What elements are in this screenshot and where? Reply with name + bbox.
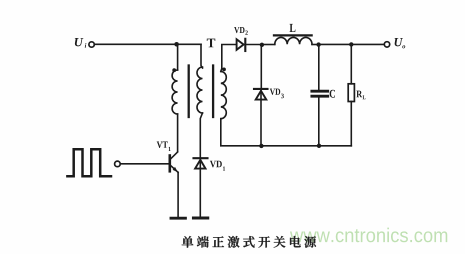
secondary phase dot [222, 68, 226, 72]
junction node input/primary [174, 42, 179, 47]
wire C bottom lead [318, 98, 320, 146]
primary phase dot [172, 68, 176, 72]
transformer reset winding [197, 67, 202, 113]
junction node L/C [316, 42, 320, 46]
transformer core bar right [212, 66, 214, 118]
label VD2 [234, 27, 248, 35]
wire RL top lead [350, 44, 352, 83]
transformer T primary winding [172, 70, 177, 114]
wire primary top lead [177, 44, 179, 70]
wire primary bottom lead [177, 114, 179, 151]
wire VD2 to node [245, 44, 262, 46]
wire secondary bottom rail [221, 119, 351, 146]
label C [330, 90, 335, 98]
pulse source square wave [67, 149, 111, 176]
wire emitter lead [177, 172, 179, 217]
wire node to L [262, 44, 275, 46]
watermark www.cntronics.com [290, 228, 447, 243]
label VT1 [157, 142, 171, 151]
label L [290, 24, 296, 32]
wire secondary top lead [221, 45, 236, 72]
label VD3 [270, 89, 284, 99]
wire L to C node [312, 44, 319, 46]
ground emitter [171, 217, 185, 220]
wire VD1 bottom lead [199, 160, 201, 217]
junction node rail/VD3 [259, 144, 263, 148]
diode VD2 [237, 39, 246, 51]
input terminal Ui [89, 42, 94, 47]
diode VD3 [254, 89, 268, 100]
transformer core bar left [188, 66, 190, 118]
wire C node to RL node [319, 43, 352, 45]
capacitor C [312, 91, 328, 96]
wire VD3 top lead [260, 45, 262, 89]
wire RL node to output [351, 43, 384, 45]
wire input rail [94, 43, 201, 45]
label Ui [75, 38, 87, 48]
diode VD1 [194, 158, 208, 168]
ground VD1 [193, 217, 207, 220]
transistor VT1 [170, 152, 178, 172]
junction node RL [349, 42, 353, 46]
wire reset winding bottom lead [200, 113, 202, 158]
wire base lead [120, 163, 169, 165]
junction node VD2/VD3 [260, 43, 264, 47]
pulse terminal [115, 161, 121, 167]
resistor RL [348, 84, 354, 102]
junction node rail/C [317, 144, 321, 148]
label VD1 [210, 161, 225, 171]
wire VD3 bottom lead [260, 91, 262, 146]
output terminal Uo [384, 42, 389, 47]
wire RL bottom lead [350, 102, 352, 146]
label T [207, 39, 215, 48]
caption 单端正激式开关电源 [182, 236, 316, 248]
wire C top lead [318, 45, 320, 90]
transformer secondary winding [221, 72, 227, 119]
wire reset winding top lead [201, 44, 203, 68]
inductor L [274, 35, 312, 44]
label RL [356, 91, 365, 100]
label Uo [395, 38, 406, 48]
